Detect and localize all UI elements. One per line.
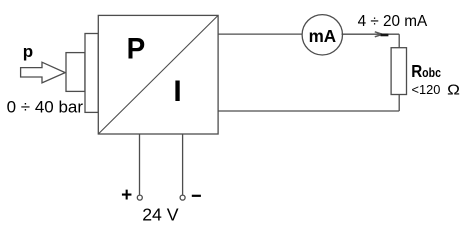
- pressure port flange outer: [66, 53, 85, 92]
- svg-text:24 V: 24 V: [142, 205, 179, 225]
- pressure input block arrow: [21, 62, 66, 83]
- svg-text:I: I: [173, 75, 181, 108]
- svg-text:p: p: [23, 42, 33, 61]
- svg-text:Robc: Robc: [411, 61, 441, 82]
- svg-text:mA: mA: [309, 26, 337, 47]
- wire transmitter output to ammeter: [218, 33, 302, 35]
- polarity label −: [192, 195, 201, 197]
- return wire to transmitter: [218, 110, 399, 112]
- svg-text:0 ÷ 40 bar: 0 ÷ 40 bar: [7, 98, 84, 117]
- supply wire positive: [139, 134, 141, 195]
- wire corner down to resistor Robc: [398, 34, 400, 48]
- pressure port flange inner: [85, 34, 98, 113]
- wire ammeter to load corner: [342, 33, 400, 35]
- svg-text:+: +: [121, 185, 132, 206]
- terminal positive: [137, 195, 142, 200]
- resistor Robc body: [391, 48, 406, 95]
- transmitter U1 diagonal divider: [98, 15, 218, 134]
- terminal negative: [180, 195, 185, 200]
- current direction arrowhead: [375, 32, 389, 37]
- svg-text:4 ÷ 20 mA: 4 ÷ 20 mA: [358, 13, 428, 30]
- supply wire negative: [182, 134, 184, 195]
- svg-text:<120: <120: [412, 82, 441, 97]
- svg-text:Ω: Ω: [447, 81, 460, 98]
- wire resistor bottom down: [398, 95, 400, 112]
- ammeter M1 circle: [302, 15, 342, 55]
- svg-text:P: P: [127, 32, 146, 65]
- transmitter U1 (P/I converter) box: [98, 15, 218, 134]
